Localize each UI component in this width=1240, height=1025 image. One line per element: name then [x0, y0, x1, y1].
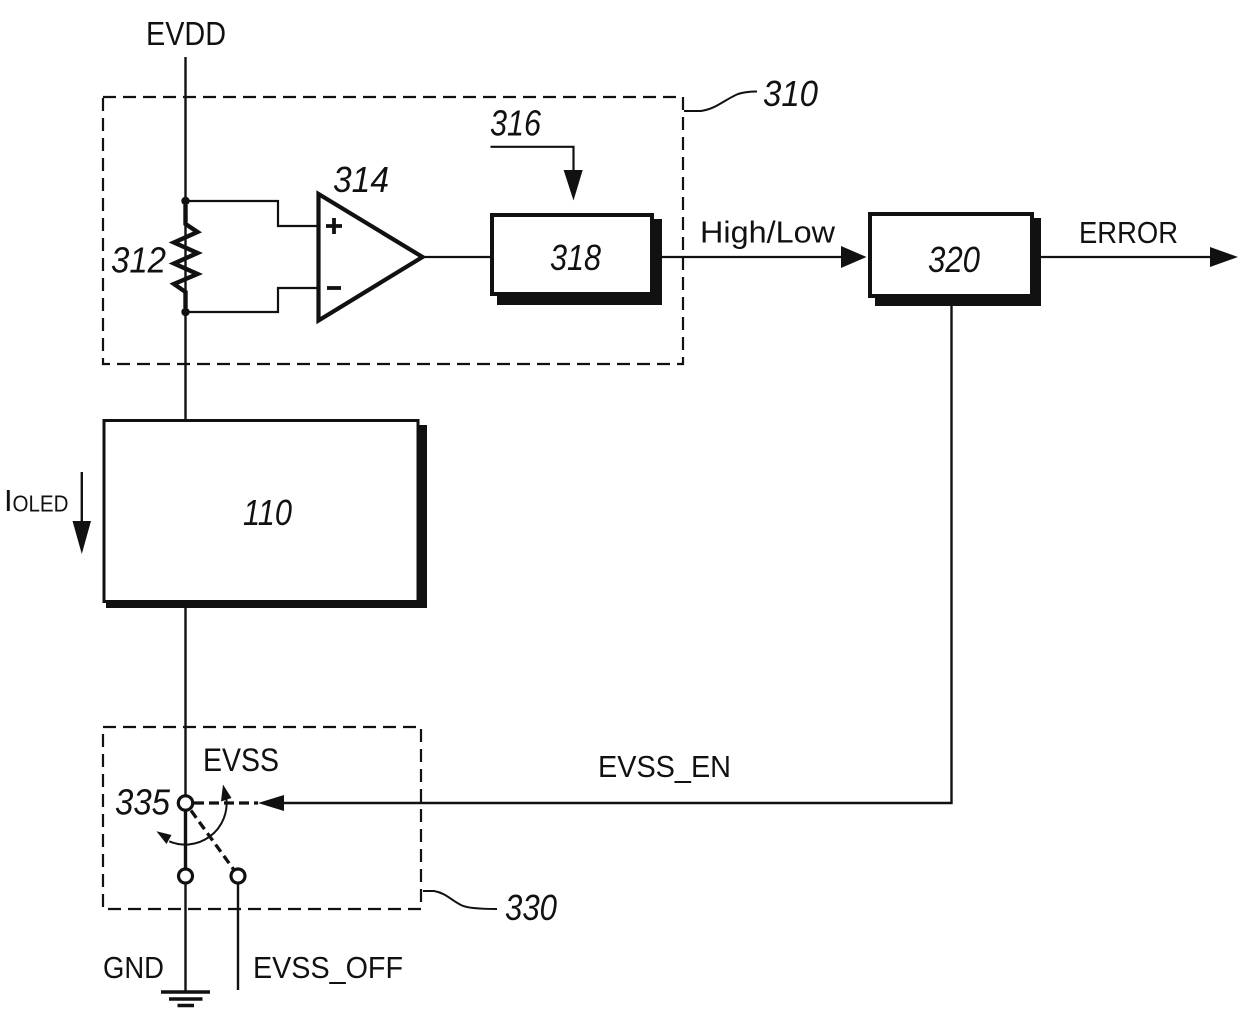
- block 110 shadow: [106, 425, 427, 608]
- svg-text:330: 330: [505, 887, 557, 928]
- block 320 shadow: [875, 218, 1041, 306]
- block 318: [492, 215, 652, 294]
- arrowhead EVSS_EN into switch: [258, 795, 284, 811]
- wire EVSS_EN from block 320: [284, 306, 952, 803]
- resistor 312: [174, 205, 198, 308]
- svg-text:320: 320: [928, 239, 980, 280]
- switch arm dashed to EVSS_OFF contact: [191, 811, 234, 871]
- ground symbol: [161, 992, 210, 1006]
- wire resistor top to op-amp plus input: [188, 201, 317, 226]
- arrowhead ERROR output: [1210, 247, 1238, 267]
- switch 335 pivot circle: [178, 796, 192, 810]
- arrowhead 316 into block 318: [564, 170, 583, 201]
- wire EVSS_OFF contact down: [237, 883, 239, 990]
- wire op-amp output to block 318: [423, 256, 493, 258]
- svg-text:EVSS_OFF: EVSS_OFF: [253, 950, 403, 985]
- svg-text:EVSS_EN: EVSS_EN: [598, 749, 731, 784]
- contact circle GND throw: [179, 869, 193, 883]
- arrow IOLED: [81, 472, 83, 528]
- arrowhead into block 320: [841, 246, 867, 268]
- svg-text:ERROR: ERROR: [1079, 215, 1178, 250]
- svg-text:EVDD: EVDD: [146, 15, 226, 52]
- block 320: [870, 214, 1032, 296]
- wire block 318 to block 320: [662, 256, 842, 258]
- svg-text:335: 335: [115, 782, 171, 823]
- svg-text:I: I: [4, 483, 13, 518]
- svg-text:OLED: OLED: [13, 491, 69, 517]
- dashed block 330: [103, 727, 421, 909]
- op-amp plus sign: [326, 218, 342, 234]
- wire EVDD vertical down to block 110: [184, 57, 186, 420]
- svg-text:GND: GND: [103, 950, 164, 985]
- leader line to 330: [423, 891, 497, 909]
- svg-text:316: 316: [490, 103, 542, 144]
- svg-text:318: 318: [550, 237, 601, 278]
- wire block 110 to switch pivot: [184, 602, 186, 796]
- block 318 shadow: [497, 219, 662, 305]
- svg-text:EVSS: EVSS: [203, 742, 279, 778]
- svg-text:110: 110: [243, 492, 292, 533]
- op-amp minus sign: [327, 286, 341, 290]
- svg-text:310: 310: [763, 73, 818, 114]
- rotation arc with arrowheads: [169, 799, 226, 845]
- wire block 320 to ERROR output: [1041, 256, 1212, 258]
- switch dashed throw line EVSS_EN: [194, 801, 258, 804]
- svg-text:314: 314: [333, 159, 389, 200]
- junction dot top of resistor: [181, 197, 189, 205]
- wire resistor bottom to op-amp minus input: [188, 288, 317, 312]
- leader line to 310: [684, 92, 757, 112]
- contact circle EVSS_OFF throw: [231, 869, 245, 883]
- svg-text:312: 312: [111, 240, 166, 281]
- dashed block 310: [103, 97, 683, 364]
- svg-text:High/Low: High/Low: [700, 215, 836, 250]
- switch arm solid to GND contact: [184, 811, 187, 869]
- block 110: [104, 421, 418, 602]
- op-amp 314: [319, 194, 423, 321]
- wire GND contact down: [184, 883, 186, 991]
- junction dot bottom of resistor: [181, 308, 189, 316]
- leader wire from 316: [491, 147, 574, 175]
